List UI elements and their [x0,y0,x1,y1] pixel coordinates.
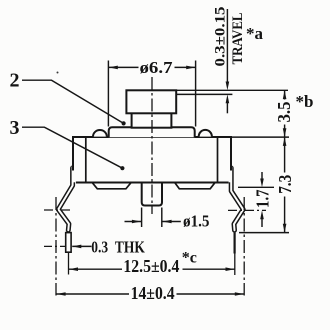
right leg (black outline) [231,168,243,230]
body inner line right [217,137,219,182]
bottom tab left [92,182,131,189]
svg-text:0.3±0.15: 0.3±0.15 [213,7,229,67]
svg-text:7.3: 7.3 [275,175,295,194]
dim dia 6.7: dim line + arrows [109,66,139,68]
speck [57,72,59,74]
main centerline [151,77,153,214]
bump right [199,130,212,137]
svg-text:12.5±0.4: 12.5±0.4 [123,256,179,276]
svg-text:TRAVEL: TRAVEL [230,13,246,65]
left kink centerline horizontal [44,209,71,211]
left kink centerline vertical [55,197,57,296]
seating plane line [239,232,289,234]
dim 3.5 / 7.3 vertical line [284,90,286,99]
left leg (black outline) [58,168,72,230]
dim 14 [57,293,130,295]
body outline: top, upper side edges, bottom lip [73,137,231,171]
svg-text:14±0.4: 14±0.4 [131,283,175,303]
svg-text:3: 3 [10,117,20,139]
body inner line left [85,137,87,182]
svg-text:*a: *a [246,24,264,43]
pin right [234,233,236,254]
dim dia 1.5 [141,208,143,228]
svg-text:ø6.7: ø6.7 [140,58,173,77]
pin left [66,233,71,253]
cover plate [109,127,195,137]
bump left [93,130,107,137]
travel line free (cap top extension) [176,89,288,91]
button cap [126,90,176,113]
svg-text:0.3 THK: 0.3 THK [91,238,145,257]
0.3 THK leader [44,245,66,247]
travel line pressed [177,93,232,95]
right kink centerline horizontal (1.7 lower ext) [228,209,266,211]
svg-text:2: 2 [10,70,20,92]
ext line at body top level [231,136,290,138]
center post [142,183,162,206]
right kink centerline vertical [243,197,245,296]
left leg inner [58,167,72,230]
dim 1.7 [261,172,263,180]
bottom tab right [175,182,216,189]
svg-text:ø1.5: ø1.5 [183,212,210,231]
dim dia 6.7: ext lines (down to cover corners) [107,61,109,127]
right leg inner [231,167,243,230]
stem [132,112,172,128]
svg-text:*b: *b [296,92,314,111]
travel dim arrows [226,9,228,83]
svg-text:1.7: 1.7 [252,189,272,208]
dim 12.5 [69,268,122,270]
body (base housing) fill [73,137,231,182]
svg-text:3.5: 3.5 [274,102,294,123]
svg-text:*c: *c [182,250,197,267]
